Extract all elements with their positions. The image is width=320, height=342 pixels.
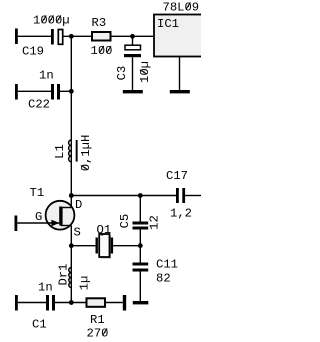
- svg-text:IC1: IC1: [157, 17, 179, 31]
- node junction bottom: [69, 300, 74, 305]
- capacitor C22 value 1n: [51, 84, 54, 100]
- svg-text:C22: C22: [28, 98, 50, 112]
- capacitor C17 value 1,2: [176, 188, 179, 203]
- svg-text:C11: C11: [156, 258, 178, 272]
- inductor Dr1 value 1u: [69, 268, 72, 288]
- svg-text:C17: C17: [166, 169, 188, 183]
- svg-text:10µ: 10µ: [138, 61, 152, 83]
- svg-text:1µ: 1µ: [78, 276, 92, 291]
- capacitor C11 value 82: [133, 263, 149, 266]
- wire: [18, 302, 46, 304]
- wire: [18, 90, 51, 92]
- svg-text:S: S: [74, 226, 81, 240]
- node junction drain/rail: [69, 193, 74, 198]
- wire: [18, 35, 51, 37]
- transistor T1: [46, 201, 75, 230]
- wire: [112, 35, 155, 37]
- ground: [170, 90, 190, 93]
- wire gate: [17, 222, 59, 224]
- svg-text:100: 100: [91, 44, 113, 58]
- svg-text:C1: C1: [32, 318, 47, 332]
- svg-text:1,2: 1,2: [170, 207, 192, 221]
- capacitor C3 value 10u: [132, 36, 134, 45]
- terminal gate: [15, 216, 18, 232]
- ground: [133, 301, 149, 304]
- wire: [71, 245, 95, 247]
- svg-text:C3: C3: [115, 66, 129, 81]
- terminal output bottom: [123, 295, 126, 311]
- wire: [60, 90, 71, 92]
- wire: [106, 302, 123, 304]
- node junction C22/bus: [69, 89, 74, 94]
- svg-text:Q1: Q1: [97, 223, 112, 237]
- svg-text:C5: C5: [118, 214, 132, 229]
- capacitor C5 value 12: [133, 222, 149, 225]
- node junction R3/C3/IC1: [130, 34, 135, 39]
- ground: [123, 90, 143, 93]
- resistor R3 value 100: [92, 32, 111, 41]
- wire left bus: [70, 36, 72, 207]
- svg-text:R3: R3: [92, 16, 107, 30]
- inductor L1 value 0,1uH: [69, 140, 72, 162]
- terminal input top-left: [15, 29, 18, 45]
- wire drain rail: [71, 195, 176, 197]
- svg-text:R1: R1: [90, 313, 105, 327]
- node junction source: [69, 243, 74, 248]
- crystal Q1: [96, 238, 98, 254]
- svg-text:T1: T1: [30, 186, 45, 200]
- svg-text:1n: 1n: [38, 281, 53, 295]
- svg-text:C19: C19: [22, 45, 44, 59]
- capacitor C19 value 1000u: [51, 29, 54, 45]
- svg-text:Dr1: Dr1: [57, 264, 71, 286]
- wire left bus lower: [70, 246, 72, 303]
- svg-text:1000µ: 1000µ: [33, 14, 70, 28]
- wire IC1 ground pin: [179, 57, 181, 91]
- svg-text:270: 270: [87, 327, 109, 341]
- node junction C19/R3/bus: [69, 34, 74, 39]
- node junction crystal/C5/C11: [138, 243, 143, 248]
- wire: [139, 272, 141, 302]
- wire: [64, 35, 93, 37]
- resistor R1 value 270: [87, 298, 106, 307]
- svg-text:12: 12: [148, 215, 162, 230]
- svg-text:G: G: [35, 210, 42, 224]
- wire: [55, 302, 86, 304]
- wire right bus: [139, 196, 141, 222]
- node junction rail/C5: [138, 193, 143, 198]
- IC1 regulator 78L09: [154, 15, 203, 57]
- svg-text:78L09: 78L09: [163, 1, 200, 15]
- wire: [139, 230, 141, 263]
- terminal input bottom-left: [15, 295, 18, 311]
- terminal input row2: [15, 84, 18, 100]
- svg-text:82: 82: [156, 272, 171, 286]
- svg-text:D: D: [75, 198, 82, 212]
- capacitor C1 value 1n: [46, 295, 49, 311]
- svg-text:1n: 1n: [39, 69, 54, 83]
- svg-text:L1: L1: [53, 144, 67, 159]
